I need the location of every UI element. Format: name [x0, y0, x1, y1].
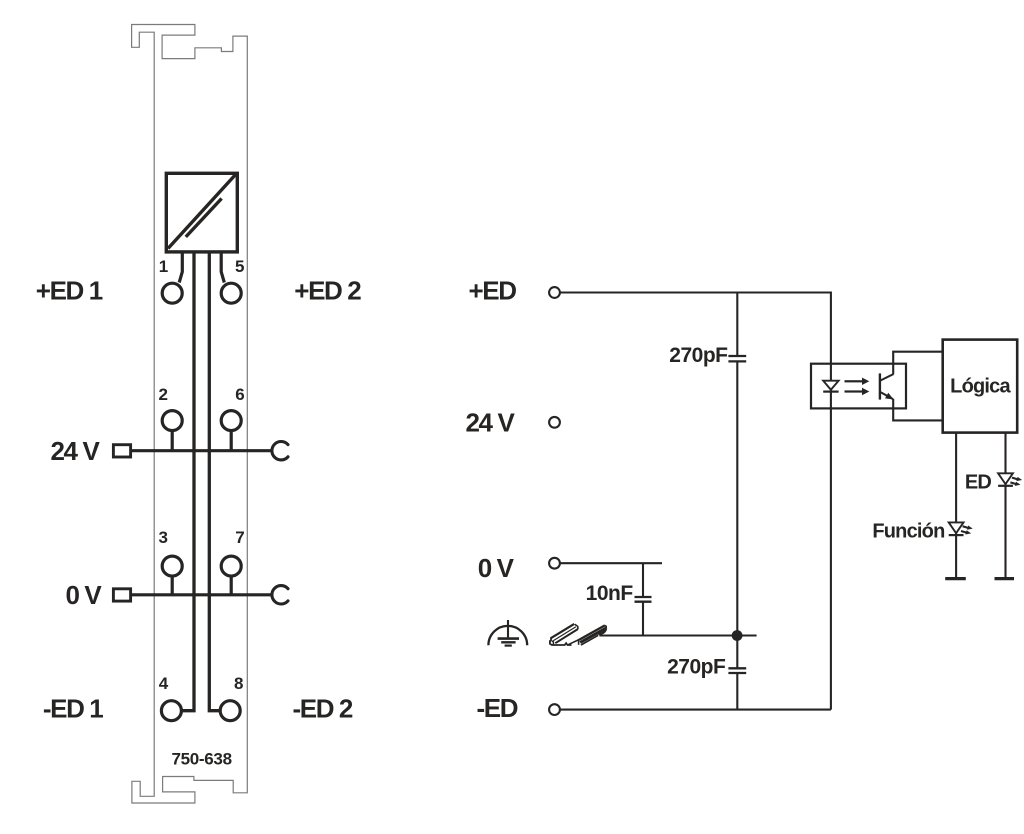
pin 2 contact	[162, 411, 182, 451]
Funcion LED emission arrows	[961, 525, 973, 534]
terminal -ED	[549, 704, 560, 715]
svg-text:10nF: 10nF	[586, 582, 634, 605]
svg-text:3: 3	[158, 528, 167, 547]
label ED	[965, 471, 992, 493]
svg-text:24 V: 24 V	[51, 436, 101, 466]
label 750-638	[171, 749, 231, 768]
svg-text:-ED 1: -ED 1	[43, 693, 103, 723]
24V field terminal square	[113, 445, 130, 457]
label 10nF	[586, 582, 634, 605]
wire +ED to LED branch and down to -ED	[560, 293, 831, 710]
svg-text:+ED 1: +ED 1	[36, 276, 103, 306]
wire pin5 stub from square	[221, 252, 224, 283]
Funcion indicator LED	[949, 522, 964, 535]
label -ED 2	[293, 693, 353, 723]
label Logica	[950, 376, 1011, 398]
svg-text:0 V: 0 V	[66, 580, 103, 610]
capacitor C3 270pF bottom	[728, 636, 746, 710]
DIN rail icon	[550, 624, 606, 645]
junction node	[732, 630, 743, 641]
svg-text:1: 1	[159, 257, 168, 276]
wire Funcion LED branch	[955, 433, 957, 579]
svg-text:24 V: 24 V	[466, 408, 516, 438]
svg-text:5: 5	[235, 257, 244, 276]
LED diode of optocoupler	[823, 381, 838, 392]
label +ED right	[469, 276, 517, 306]
svg-text:0 V: 0 V	[478, 553, 515, 583]
terminal +ED	[549, 287, 560, 298]
label 0 V left	[66, 580, 103, 610]
pin 3 contact	[162, 556, 182, 595]
wire long vertical to pin 4	[183, 252, 195, 711]
0V field terminal square	[113, 589, 130, 601]
ED indicator LED	[998, 473, 1013, 486]
phototransistor Q1	[880, 352, 943, 421]
svg-text:-ED: -ED	[477, 693, 518, 723]
label +ED 1	[36, 276, 103, 306]
logic box	[943, 340, 1018, 433]
pin 6 contact	[221, 411, 241, 451]
label 24 V right	[466, 408, 516, 438]
wire long vertical to pin 8	[209, 252, 220, 711]
ground symbol	[488, 620, 527, 646]
wire -ED	[560, 709, 831, 711]
svg-text:Lógica: Lógica	[950, 376, 1011, 398]
capacitor C2 270pF top	[728, 293, 746, 636]
svg-text:Función: Función	[872, 520, 944, 542]
svg-text:4: 4	[159, 674, 169, 693]
label 270pF bottom	[667, 655, 726, 678]
ED LED emission arrows	[1010, 477, 1022, 486]
function symbol square with diagonals	[166, 173, 237, 252]
label 0 V right	[478, 553, 515, 583]
pin 8 contact	[220, 701, 240, 721]
label Funcion	[872, 520, 944, 542]
svg-text:6: 6	[235, 385, 244, 404]
label 270pF top	[669, 344, 728, 367]
label -ED	[477, 693, 518, 723]
24V clamp arc	[272, 442, 288, 460]
pin 4 contact	[161, 701, 181, 721]
svg-text:+ED: +ED	[469, 276, 517, 306]
pin 5 contact	[221, 283, 241, 303]
pin 7 contact	[221, 556, 241, 595]
label +ED 2	[294, 276, 361, 306]
0V row wire	[131, 593, 273, 596]
label 24 V left	[51, 436, 101, 466]
svg-text:270pF: 270pF	[667, 655, 726, 678]
ground rail wire	[600, 634, 757, 636]
terminal 0V right	[549, 558, 560, 569]
wire end bar ED	[995, 577, 1015, 580]
svg-text:7: 7	[235, 528, 244, 547]
pin numbers	[158, 257, 244, 693]
pin 1 contact	[162, 283, 182, 303]
wire end bar Funcion	[945, 577, 966, 580]
wire pin1 stub from square	[179, 252, 182, 283]
wire 0V	[560, 562, 662, 564]
24V row wire	[131, 449, 273, 452]
svg-text:2: 2	[158, 385, 167, 404]
label -ED 1	[43, 693, 103, 723]
svg-text:750-638: 750-638	[171, 749, 231, 768]
0V clamp arc	[272, 586, 288, 604]
svg-text:ED: ED	[965, 471, 992, 493]
opto light arrows	[845, 378, 870, 396]
wire ED LED branch	[1004, 433, 1006, 579]
svg-text:-ED 2: -ED 2	[293, 693, 353, 723]
svg-text:8: 8	[234, 674, 243, 693]
svg-text:+ED 2: +ED 2	[294, 276, 361, 306]
optocoupler box	[811, 364, 906, 409]
capacitor C1 10nF	[635, 563, 652, 635]
svg-text:270pF: 270pF	[669, 344, 728, 367]
module outline 750-638 housing	[132, 25, 248, 804]
terminal 24V right	[549, 417, 560, 428]
